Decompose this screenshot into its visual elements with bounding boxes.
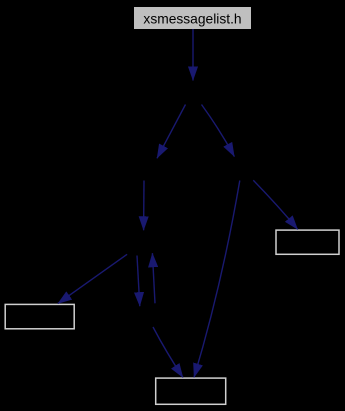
edge hidden node D to left box bbox=[58, 254, 127, 303]
edge hidden node A to hidden node B bbox=[157, 105, 186, 159]
node right box bbox=[276, 230, 339, 254]
edge hidden node E to bottom box bbox=[153, 327, 183, 378]
edge hidden node E to hidden node D (back edge) bbox=[152, 253, 155, 303]
edge hidden node C to bottom box bbox=[194, 181, 240, 378]
node left box bbox=[5, 304, 74, 328]
edge hidden node B to hidden node D bbox=[143, 181, 145, 231]
node bottom box bbox=[156, 378, 226, 404]
edge hidden node D to hidden node E bbox=[137, 256, 140, 307]
edge hidden node C to right box bbox=[253, 180, 297, 229]
edge hidden node A to hidden node C bbox=[202, 105, 235, 157]
node xsmessagelist.h (root) bbox=[134, 7, 251, 29]
edge root to hidden node A bbox=[192, 29, 194, 81]
svg-text:xsmessagelist.h: xsmessagelist.h bbox=[143, 11, 241, 26]
